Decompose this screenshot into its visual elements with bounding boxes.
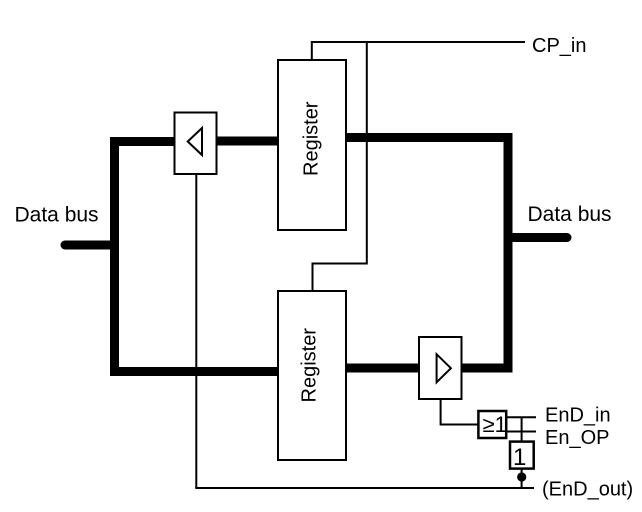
wire: top bus segment right bbox=[346, 133, 513, 142]
wire: right data bus stub bbox=[508, 233, 567, 242]
register U2 (bottom) bbox=[278, 291, 346, 460]
wire: inverter box to EnD_out line bbox=[521, 469, 523, 488]
bus driver U4 (right, output driver) bbox=[419, 337, 462, 399]
svg-text:Register: Register bbox=[299, 328, 321, 403]
wire: top bus segment left bbox=[110, 137, 175, 146]
wire: right vertical bus bbox=[504, 133, 513, 373]
svg-text:CP_in: CP_in bbox=[532, 35, 586, 57]
wire: CP_in rail bbox=[312, 42, 525, 60]
svg-text:EnD_in: EnD_in bbox=[545, 405, 611, 427]
wire: left data bus stub bbox=[65, 241, 114, 250]
buffer U6 (IEC 1 box) bbox=[510, 442, 534, 469]
wire: En_OP line bbox=[506, 431, 536, 433]
wire: EnD_in line bbox=[506, 416, 536, 418]
wire: bottom bus segment left bbox=[110, 367, 278, 376]
svg-text:En_OP: En_OP bbox=[545, 427, 609, 449]
wire: top bus segment middle bbox=[217, 137, 279, 146]
OR gate U5 (IEC >=1 box) bbox=[478, 411, 506, 438]
wire: clock drop to bottom register bbox=[313, 42, 367, 291]
register U1 (top) bbox=[278, 60, 346, 230]
wire: right driver enable to OR gate bbox=[441, 399, 479, 425]
svg-text:Data bus: Data bus bbox=[15, 204, 99, 227]
svg-text:(EnD_out): (EnD_out) bbox=[542, 478, 633, 500]
wire: EnD_out horizontal line bbox=[195, 487, 534, 489]
triangle of driver U4 (points right) bbox=[437, 354, 451, 382]
svg-text:1: 1 bbox=[513, 444, 526, 471]
wire: bottom bus segment middle bbox=[346, 364, 419, 373]
wire: OR output to inverter box bbox=[521, 417, 523, 441]
wire: left vertical bus bbox=[110, 137, 119, 376]
svg-text:≥1: ≥1 bbox=[483, 412, 507, 437]
wire: enable line from left driver down bbox=[195, 174, 197, 488]
wire: bottom bus segment right bbox=[462, 364, 513, 373]
bus driver U3 (left, input driver) bbox=[175, 113, 217, 175]
svg-text:Register: Register bbox=[301, 101, 323, 176]
svg-text:Data bus: Data bus bbox=[528, 203, 612, 226]
junction dot on EnD_out bbox=[517, 472, 526, 481]
triangle of driver U3 (points left) bbox=[188, 128, 202, 155]
